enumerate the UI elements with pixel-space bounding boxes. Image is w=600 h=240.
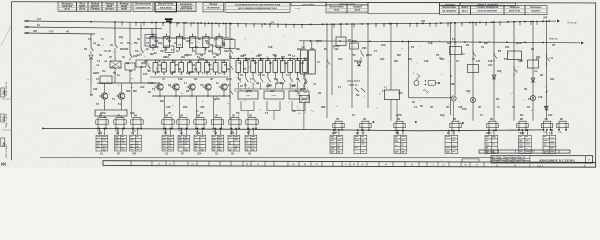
- wire: [225, 23, 227, 38]
- terminal block X12: [394, 135, 407, 153]
- wire: [326, 24, 328, 118]
- wire rail: [234, 88, 306, 90]
- transistor VT3: [157, 84, 163, 90]
- terminal block X10: [330, 135, 343, 153]
- wire: [450, 23, 452, 115]
- relay coil KB2: [165, 46, 174, 53]
- wire: [408, 42, 410, 98]
- relay coil K8b: [300, 96, 310, 103]
- header table cell: [347, 5, 368, 13]
- indicator lamp HL5: [530, 95, 535, 100]
- terminal block X5: [178, 135, 190, 151]
- wire: [179, 96, 181, 117]
- resistor R15: [519, 121, 526, 130]
- bus wire lower: [42, 128, 543, 130]
- wavy mark: [301, 90, 307, 92]
- transistor VT4: [173, 84, 179, 90]
- wire rail: [230, 58, 306, 60]
- contact K11.2: [472, 50, 474, 53]
- terminal block X15: [519, 135, 532, 153]
- relay coil K6: [289, 91, 309, 99]
- wire: [303, 103, 305, 130]
- extra labels: [93, 36, 308, 87]
- contact K9.1: [360, 50, 362, 53]
- indicator lamp HL3: [451, 96, 456, 101]
- wire resistor leads: [213, 126, 215, 128]
- contact K2.2: [140, 47, 142, 49]
- header table cell: [155, 2, 177, 12]
- relay coil K2: [125, 63, 135, 70]
- wire block leads: [546, 130, 548, 135]
- header table cell: [117, 2, 131, 11]
- transistor VT1: [101, 93, 107, 99]
- resistor R8: [231, 118, 239, 127]
- arrow box symbol: [428, 81, 435, 86]
- contact ladder SB row1: [150, 34, 222, 51]
- wire: [104, 99, 106, 110]
- wire: [129, 70, 131, 83]
- diode VD9: [492, 75, 496, 79]
- diode VD1: [89, 55, 93, 59]
- header table cell: [440, 6, 460, 15]
- terminal block X11: [354, 135, 367, 153]
- bus wire 84: [25, 27, 162, 29]
- wire: [351, 24, 353, 108]
- revision bar tail: [462, 159, 479, 162]
- wire resistor leads: [334, 129, 336, 131]
- resistor R3: [133, 118, 141, 127]
- indicator lamp HL2: [414, 81, 419, 86]
- margin notes: [5, 81, 8, 158]
- wire block leads: [117, 129, 119, 136]
- diode VD11: [545, 106, 549, 110]
- resistor R12: [396, 121, 403, 130]
- wire resistor leads: [488, 129, 490, 132]
- header table cell: [88, 2, 102, 11]
- contact C0b: [229, 63, 231, 66]
- relay coil K3: [100, 76, 112, 84]
- wire: [223, 90, 225, 96]
- relay coil K8: [308, 50, 315, 74]
- margin stamp: [1, 114, 5, 122]
- wire block leads: [165, 129, 167, 136]
- wire: [114, 68, 116, 83]
- resistor R1: [98, 118, 106, 127]
- terminal block X16: [543, 135, 556, 153]
- wire: [183, 23, 185, 38]
- resistor R13: [452, 121, 459, 130]
- wire block leads: [448, 131, 450, 136]
- terminal block X1: [96, 135, 108, 151]
- wire: [546, 21, 548, 120]
- margin stamp: [1, 138, 5, 147]
- wire rail: [152, 95, 230, 97]
- resistor R5: [179, 118, 187, 127]
- wire block leads: [488, 130, 490, 135]
- resistor R2: [116, 118, 124, 127]
- hook: [241, 101, 254, 111]
- header table cell: [368, 2, 440, 13]
- wire resistor leads: [558, 129, 560, 131]
- header table cell: [471, 6, 505, 15]
- contact L1: [546, 54, 548, 57]
- relay coil K11: [450, 47, 462, 55]
- relay coil KB1: [145, 35, 156, 47]
- contact D1: [303, 74, 305, 79]
- resistor R14: [489, 121, 496, 130]
- wire block leads: [197, 129, 199, 136]
- wire block leads: [181, 129, 183, 136]
- hook: [292, 101, 305, 111]
- wire: [164, 96, 166, 117]
- transistor VT5: [189, 84, 195, 90]
- bottom strip: [103, 161, 596, 168]
- wire: [331, 24, 333, 95]
- wavy mark: [423, 90, 429, 93]
- wire: [367, 24, 369, 108]
- ladder junction dots: [238, 58, 240, 60]
- wire: [114, 22, 116, 42]
- wire block leads: [397, 131, 399, 136]
- wire block leads: [215, 129, 217, 136]
- header table cell: [203, 3, 224, 12]
- wire: [409, 97, 451, 99]
- ladder contacts: [237, 76, 239, 79]
- wire block leads: [231, 129, 233, 136]
- bus wire 285: [25, 33, 95, 34]
- bus wire 20: [299, 41, 580, 43]
- wire resistor leads: [395, 129, 397, 132]
- wire: [454, 23, 456, 96]
- header table cell: [326, 5, 347, 13]
- wire: [229, 24, 231, 120]
- relay coil K5: [264, 91, 284, 99]
- wire: [453, 101, 455, 121]
- relay coil K2b: [136, 60, 146, 67]
- contact K1.2: [114, 42, 116, 44]
- wire: [213, 96, 215, 117]
- wire 285 drop: [90, 34, 92, 45]
- wire rail: [146, 37, 229, 39]
- header table cell: [177, 2, 197, 11]
- wire: [273, 111, 275, 121]
- wire: [129, 22, 131, 52]
- wire block leads: [357, 130, 359, 135]
- header table cell: [440, 3, 461, 6]
- bus stubs: [121, 22, 123, 26]
- wire: [303, 41, 305, 50]
- contact dots: [425, 80, 426, 81]
- wire: [104, 83, 106, 93]
- wire: [390, 100, 392, 121]
- margin stamp: [1, 88, 5, 97]
- flag: [417, 74, 421, 79]
- resistor R10: [335, 121, 342, 130]
- wire: [340, 24, 342, 37]
- relay coil K9: [336, 37, 346, 46]
- wire block leads: [99, 129, 101, 136]
- relay coil K15: [508, 51, 522, 60]
- header table cell: [326, 2, 368, 5]
- wire resistor leads: [247, 126, 249, 128]
- wire: [493, 22, 495, 121]
- contact K12.1: [493, 52, 495, 55]
- relay coil KB4: [213, 46, 221, 54]
- wire: [472, 23, 474, 121]
- header table cell: [133, 2, 153, 11]
- bus junction dots dense: [155, 22, 157, 24]
- wire resistor leads: [543, 129, 545, 131]
- wire: [191, 90, 193, 96]
- frame inner bottom line: [40, 156, 491, 158]
- wire arrows: [373, 121, 375, 123]
- bus junctions: [90, 21, 92, 23]
- wire block leads: [521, 130, 523, 135]
- wire: [513, 22, 515, 121]
- wire: [207, 90, 209, 96]
- header table cell: [460, 3, 516, 6]
- wire: [211, 23, 213, 38]
- wire: [532, 22, 534, 121]
- wire: [247, 111, 249, 118]
- header table cell: [102, 2, 117, 11]
- contact K2.1: [129, 52, 131, 54]
- header table cell: [225, 3, 290, 13]
- wire block leads: [132, 129, 134, 136]
- wire: [169, 23, 171, 38]
- title block: [491, 156, 593, 163]
- diode VD8: [357, 62, 361, 66]
- wire: [140, 22, 142, 47]
- wire: [104, 116, 106, 118]
- transistor VT6: [205, 84, 211, 90]
- relay coil K9b: [350, 43, 359, 49]
- value labels: [88, 37, 556, 117]
- terminal block X2: [115, 135, 127, 151]
- resistor R4: [164, 118, 172, 127]
- transistor VT2: [118, 93, 124, 99]
- wire: [155, 23, 157, 38]
- terminal block X8: [228, 135, 240, 151]
- resistor R16: [544, 121, 551, 130]
- wire rail: [97, 82, 160, 84]
- relay coil K12: [468, 65, 479, 73]
- bus wire 107: [25, 21, 556, 25]
- title block corner cell: [586, 156, 593, 163]
- relay coil KB3: [196, 48, 205, 55]
- wire: [114, 51, 116, 61]
- header table cell: [525, 6, 547, 15]
- wire: [90, 83, 92, 96]
- wire resistor leads: [518, 129, 520, 131]
- resistor R11: [362, 121, 369, 130]
- terminal block X3: [130, 135, 142, 151]
- wire: [90, 60, 92, 83]
- wire: [311, 41, 313, 50]
- wire: [159, 90, 161, 96]
- wire: [175, 90, 177, 96]
- terminal block X6: [194, 135, 206, 151]
- wire resistor leads: [178, 126, 180, 128]
- contact C0c: [229, 88, 231, 91]
- terminal block X9: [245, 135, 257, 151]
- contact K1.1: [90, 45, 92, 47]
- contact C0a: [229, 47, 231, 50]
- wire resistor leads: [451, 129, 453, 132]
- wire: [390, 24, 392, 90]
- header table cell: [504, 6, 525, 15]
- texture ticks: [87, 35, 554, 117]
- indicator lamp HL4: [470, 97, 475, 102]
- resistor R9: [248, 118, 256, 127]
- contact D2: [326, 58, 328, 61]
- resistor R7: [214, 118, 222, 127]
- wire resistor leads: [115, 126, 117, 128]
- node marker N: [165, 18, 173, 20]
- revision bar: [479, 150, 570, 153]
- terminal block X7: [212, 135, 224, 151]
- hook: [267, 101, 280, 111]
- wire bus2 drop: [151, 29, 153, 38]
- wire block leads: [333, 130, 335, 135]
- header table cell: [77, 2, 89, 11]
- relay coil K4: [238, 91, 258, 99]
- contact K5.1: [147, 63, 149, 65]
- wire: [396, 100, 398, 121]
- resistor R6: [196, 118, 204, 127]
- wire rail: [150, 76, 228, 78]
- header table cell: [291, 2, 326, 5]
- wire: [197, 23, 199, 38]
- relay coil K16: [528, 60, 539, 68]
- wire resistor leads: [132, 126, 134, 128]
- transistor VT7: [221, 84, 227, 90]
- header table: [58, 2, 77, 11]
- wire: [140, 67, 142, 83]
- relay coil K4: [95, 110, 127, 116]
- wire: [131, 83, 133, 118]
- contact marks: [355, 88, 359, 92]
- contact K15.1: [513, 66, 515, 69]
- terminal block X14: [485, 135, 498, 153]
- relay coil K1: [110, 61, 121, 68]
- wire resistor leads: [163, 126, 165, 128]
- wire resistor leads: [230, 126, 232, 128]
- wire: [196, 96, 198, 117]
- wire resistor leads: [97, 126, 99, 128]
- terminal block X13: [445, 135, 458, 153]
- wire rail: [146, 59, 229, 61]
- contact ladder SA ladder: [236, 58, 307, 76]
- relay coil K10: [385, 90, 400, 100]
- wire resistor leads: [361, 129, 363, 131]
- diode VD10: [531, 78, 535, 82]
- wire block leads: [248, 129, 250, 136]
- terminal block X4: [162, 135, 174, 151]
- contact ladder SB row2: [153, 60, 227, 76]
- wire resistor leads: [195, 126, 197, 128]
- resistor R17: [559, 121, 566, 130]
- relay coil KB5: [224, 40, 235, 49]
- relay coil K7: [301, 50, 308, 74]
- header table cell: [459, 6, 471, 15]
